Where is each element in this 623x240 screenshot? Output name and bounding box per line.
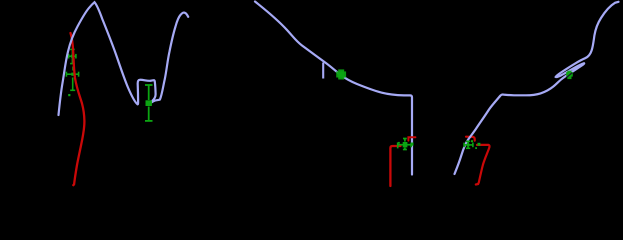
track R1 (left red track): [71, 33, 85, 185]
track T3 (right blue track with hairpin): [455, 2, 619, 174]
marker B1 (green error-bar point in loop dip): [145, 85, 153, 121]
track R3a (right red elbow, under blue track): [466, 137, 475, 141]
node G1 (green plus marker on middle track): [336, 69, 346, 79]
track T1 (left blue track with peak and small loop): [59, 2, 189, 115]
track R3 (right red track): [476, 145, 490, 185]
track T2 (middle blue track descending to vertical): [255, 2, 412, 175]
marker M2 (small green point on blue vertical): [411, 143, 414, 146]
wire (dark streak over hairpin marker): [567, 73, 573, 78]
marker M1 (green error-bar point, middle cluster): [398, 139, 412, 150]
track R2b (small red elbow over blue vertical): [408, 137, 415, 140]
marker N2 (green point, right cluster): [471, 140, 480, 149]
marker A2 (green error-bar point): [66, 67, 78, 97]
node G2 (green plus marker on right hairpin): [566, 71, 573, 79]
marker N1 (green error-bar point, right cluster): [464, 141, 473, 148]
wire stub (short vertical blue segment on middle track): [322, 63, 324, 79]
marker A1 (green error-bar point): [69, 49, 76, 63]
track R2 (middle red track, L-shape): [390, 146, 400, 186]
